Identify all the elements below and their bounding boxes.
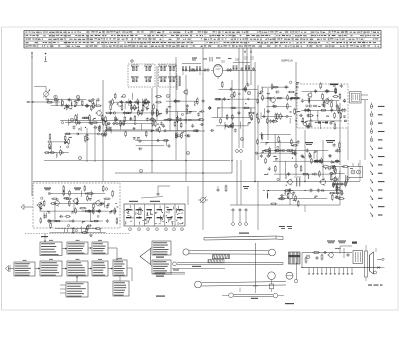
rod down arrow — [240, 288, 256, 294]
label out1 — [305, 142, 313, 145]
wire — [238, 85, 240, 148]
IF transformer S2 — [159, 64, 177, 87]
connector f — [370, 146, 383, 150]
cap C25 — [229, 68, 232, 72]
mains plug — [377, 258, 385, 268]
node mark 5 — [166, 94, 169, 98]
dial rod 3 — [173, 262, 283, 266]
wire — [322, 140, 324, 181]
node mark 9 — [139, 169, 142, 173]
flow arrow — [108, 268, 113, 270]
legend label 188 — [156, 276, 164, 277]
flow wire — [108, 248, 118, 261]
wire — [267, 88, 269, 140]
component group if1b — [100, 116, 163, 138]
label 716.4 — [239, 233, 249, 234]
component group output — [260, 142, 341, 182]
wire — [156, 66, 158, 120]
cap C40 — [139, 139, 142, 143]
pointer triangle — [140, 248, 152, 267]
pot wiring — [157, 186, 189, 205]
legend box B5-188 — [152, 260, 171, 274]
bottom rod — [222, 293, 284, 298]
connector k — [370, 188, 383, 192]
component group mid-sparse — [133, 137, 171, 150]
transistor TS2 — [143, 102, 149, 109]
volume pot R30 — [198, 197, 208, 204]
wire — [359, 160, 361, 181]
wire — [304, 205, 306, 212]
dial rod 1 — [204, 236, 283, 240]
transistor TS1 — [117, 101, 123, 108]
elco C46 — [287, 188, 293, 205]
connector m — [370, 204, 385, 208]
label BC147 a — [44, 188, 51, 191]
pulley P2 — [195, 272, 276, 288]
legend box B5-187 — [152, 241, 171, 255]
speaker LS1 — [370, 252, 374, 274]
block B1 rf — [14, 260, 35, 276]
junction — [304, 181, 305, 182]
cap C23 — [252, 67, 255, 71]
wire — [103, 130, 205, 132]
block B5 mixer — [40, 259, 62, 276]
label F86 — [368, 285, 383, 286]
junction — [295, 120, 296, 121]
connector j — [370, 179, 385, 183]
label small tr — [279, 226, 292, 229]
component group osc — [61, 114, 104, 143]
block B7 det2 — [92, 259, 108, 276]
arrow left — [26, 101, 30, 103]
node 2 — [131, 60, 134, 63]
node 7 — [247, 91, 250, 94]
block B4 af — [92, 240, 108, 254]
dial rod 5 — [202, 282, 287, 287]
wire — [257, 181, 259, 230]
wire — [94, 125, 96, 162]
wire — [169, 66, 171, 131]
block B3 if — [67, 240, 88, 254]
wire — [238, 48, 240, 85]
junction — [185, 160, 186, 161]
wire — [31, 56, 33, 196]
transistor TS3 — [96, 110, 102, 117]
ganged switch bus — [301, 268, 381, 275]
switch label — [129, 197, 163, 202]
transistor TS12 — [287, 179, 293, 186]
node mark 1 — [294, 164, 297, 168]
component group audio-below — [50, 225, 106, 237]
plug pair — [232, 150, 248, 226]
pilot circle — [374, 271, 377, 274]
wire — [151, 88, 153, 173]
component group left-mid — [44, 133, 72, 157]
block B6 ifamp — [67, 259, 88, 276]
component group am-tube — [256, 81, 300, 124]
node mark 3 — [122, 94, 125, 98]
trimmer cap C15 — [193, 68, 196, 72]
IF transformer S1 — [128, 64, 155, 87]
transistor TS4 — [183, 89, 188, 95]
component group right-mid — [329, 160, 349, 201]
block B8 out — [113, 258, 127, 276]
arrow down — [347, 178, 350, 181]
connector c — [370, 119, 382, 125]
connector n — [370, 213, 383, 217]
wire — [295, 130, 297, 176]
wire — [202, 48, 204, 196]
cap C24 — [204, 68, 207, 72]
component group fm — [299, 82, 347, 129]
input symbol — [6, 265, 15, 272]
wire — [182, 70, 206, 72]
block B2 det — [40, 240, 62, 256]
node mark 4 — [78, 156, 81, 160]
wire — [339, 182, 341, 206]
junction — [102, 120, 103, 121]
junction — [202, 172, 203, 173]
wire — [254, 62, 256, 181]
switch pins numbered — [129, 228, 184, 231]
transistor TS5 — [270, 97, 276, 104]
junction — [254, 181, 255, 182]
grid cap C20 — [207, 68, 210, 72]
FM tuner box outline — [297, 84, 348, 128]
wire — [240, 160, 242, 205]
speaker terminal — [21, 205, 33, 210]
node mark 8 — [186, 151, 189, 155]
label 917.6 — [192, 266, 201, 267]
wire to speaker — [340, 246, 376, 254]
label S group — [327, 241, 357, 244]
wire — [102, 80, 104, 181]
node 9 — [70, 118, 73, 121]
antenna arrow A1 — [31, 51, 32, 58]
transistor TS11 — [95, 200, 101, 207]
flow arrow — [88, 268, 92, 270]
wire — [257, 85, 259, 160]
legend label 187 — [156, 257, 164, 258]
component group det — [208, 81, 258, 133]
transistor TS8 — [37, 202, 43, 209]
label out2 — [326, 140, 335, 143]
component group agc — [255, 132, 299, 160]
dial rod 4 — [155, 268, 225, 274]
wire — [115, 172, 232, 174]
wire — [33, 181, 360, 183]
connector i — [370, 171, 383, 175]
junction — [169, 120, 170, 121]
wire — [347, 128, 349, 160]
wire — [295, 62, 297, 130]
component group if1 — [105, 93, 162, 122]
wire — [230, 204, 340, 206]
transistor TS7 — [307, 92, 312, 98]
block B10 spk — [113, 281, 129, 296]
junction — [151, 160, 152, 161]
ferrite coil S5 — [177, 75, 181, 90]
oscillator coil S3 — [182, 64, 201, 76]
piano switch SK1 — [124, 204, 185, 226]
label dark — [330, 84, 338, 86]
cap C21 — [227, 68, 230, 72]
IF transformer S4 — [233, 63, 250, 72]
wire — [86, 128, 88, 162]
pointer bracket — [289, 252, 301, 264]
component group audio1 — [39, 185, 118, 229]
fm bottom row — [303, 122, 333, 126]
node 6 — [76, 95, 79, 98]
component group mixer — [46, 98, 102, 111]
tuning gang C1 — [34, 87, 50, 101]
label P86-06 — [285, 303, 294, 304]
title block table — [24, 31, 381, 49]
flow arrow — [62, 268, 67, 270]
transistor TS13 — [319, 178, 325, 186]
wire — [175, 57, 177, 160]
wire — [339, 103, 341, 165]
junction — [151, 130, 152, 131]
ratio detector box — [350, 92, 369, 104]
audio amp box outline — [33, 183, 120, 228]
wire — [279, 140, 281, 181]
wire — [250, 48, 252, 85]
wire — [202, 196, 204, 230]
choke S11 — [346, 175, 348, 186]
transistor TS9 — [54, 200, 60, 207]
node 5 — [54, 95, 57, 98]
connector h — [370, 162, 383, 166]
junction — [32, 101, 33, 102]
label b5 xx — [156, 296, 165, 297]
label BC147 b — [74, 188, 81, 191]
transistor TS6 — [324, 98, 330, 105]
dial rod 2 — [189, 251, 269, 255]
dashed feed — [25, 234, 130, 243]
label row — [203, 58, 232, 60]
bus arrows — [244, 50, 252, 53]
connector l — [370, 196, 383, 200]
node mark 6 — [240, 137, 243, 141]
wire — [44, 160, 230, 162]
flow wire right — [120, 268, 132, 281]
flow arrow — [62, 248, 67, 250]
connector b — [370, 111, 382, 117]
connector d — [370, 128, 384, 134]
pulley P1 — [183, 249, 276, 256]
output trafo S9 — [294, 177, 301, 186]
flow arrow — [88, 247, 92, 249]
ferrite rod (hatched) — [208, 255, 230, 263]
transistor TS10 — [73, 198, 79, 205]
de-emphasis C45 — [217, 185, 250, 193]
wire — [242, 48, 244, 85]
svg-text:B5P61A: B5P61A — [282, 58, 294, 62]
dial lamp box — [348, 163, 363, 178]
cord pulley P3 — [286, 263, 298, 283]
wire — [246, 48, 248, 85]
connector g — [370, 154, 385, 158]
flow arrow — [35, 268, 40, 270]
wire — [231, 80, 233, 173]
component group output-low — [263, 181, 344, 207]
wire — [304, 130, 306, 181]
wire — [242, 85, 244, 148]
component group if2 — [162, 97, 205, 139]
long vertical cord — [253, 243, 258, 289]
dial lamp 1 — [44, 53, 47, 62]
tone control network — [302, 248, 352, 268]
connector a — [370, 103, 384, 109]
wire — [60, 120, 200, 122]
elco block — [365, 245, 368, 281]
node mark 2 — [230, 94, 233, 98]
label 750 — [251, 298, 258, 299]
tick pair — [222, 58, 238, 63]
block B9 ps — [66, 282, 88, 297]
wire — [364, 100, 366, 160]
flow arrow up — [60, 276, 78, 293]
label b2 pins — [192, 56, 253, 62]
connector e — [370, 136, 382, 142]
tube B2 (UCH81) — [211, 64, 225, 79]
coil L10 — [189, 66, 190, 72]
wire — [236, 160, 238, 205]
wire — [27, 101, 60, 103]
junction — [202, 120, 203, 121]
wire — [185, 75, 187, 181]
junction — [231, 160, 232, 161]
wire — [225, 70, 256, 72]
mains transformer T1 — [353, 251, 363, 264]
tension box — [270, 280, 274, 293]
